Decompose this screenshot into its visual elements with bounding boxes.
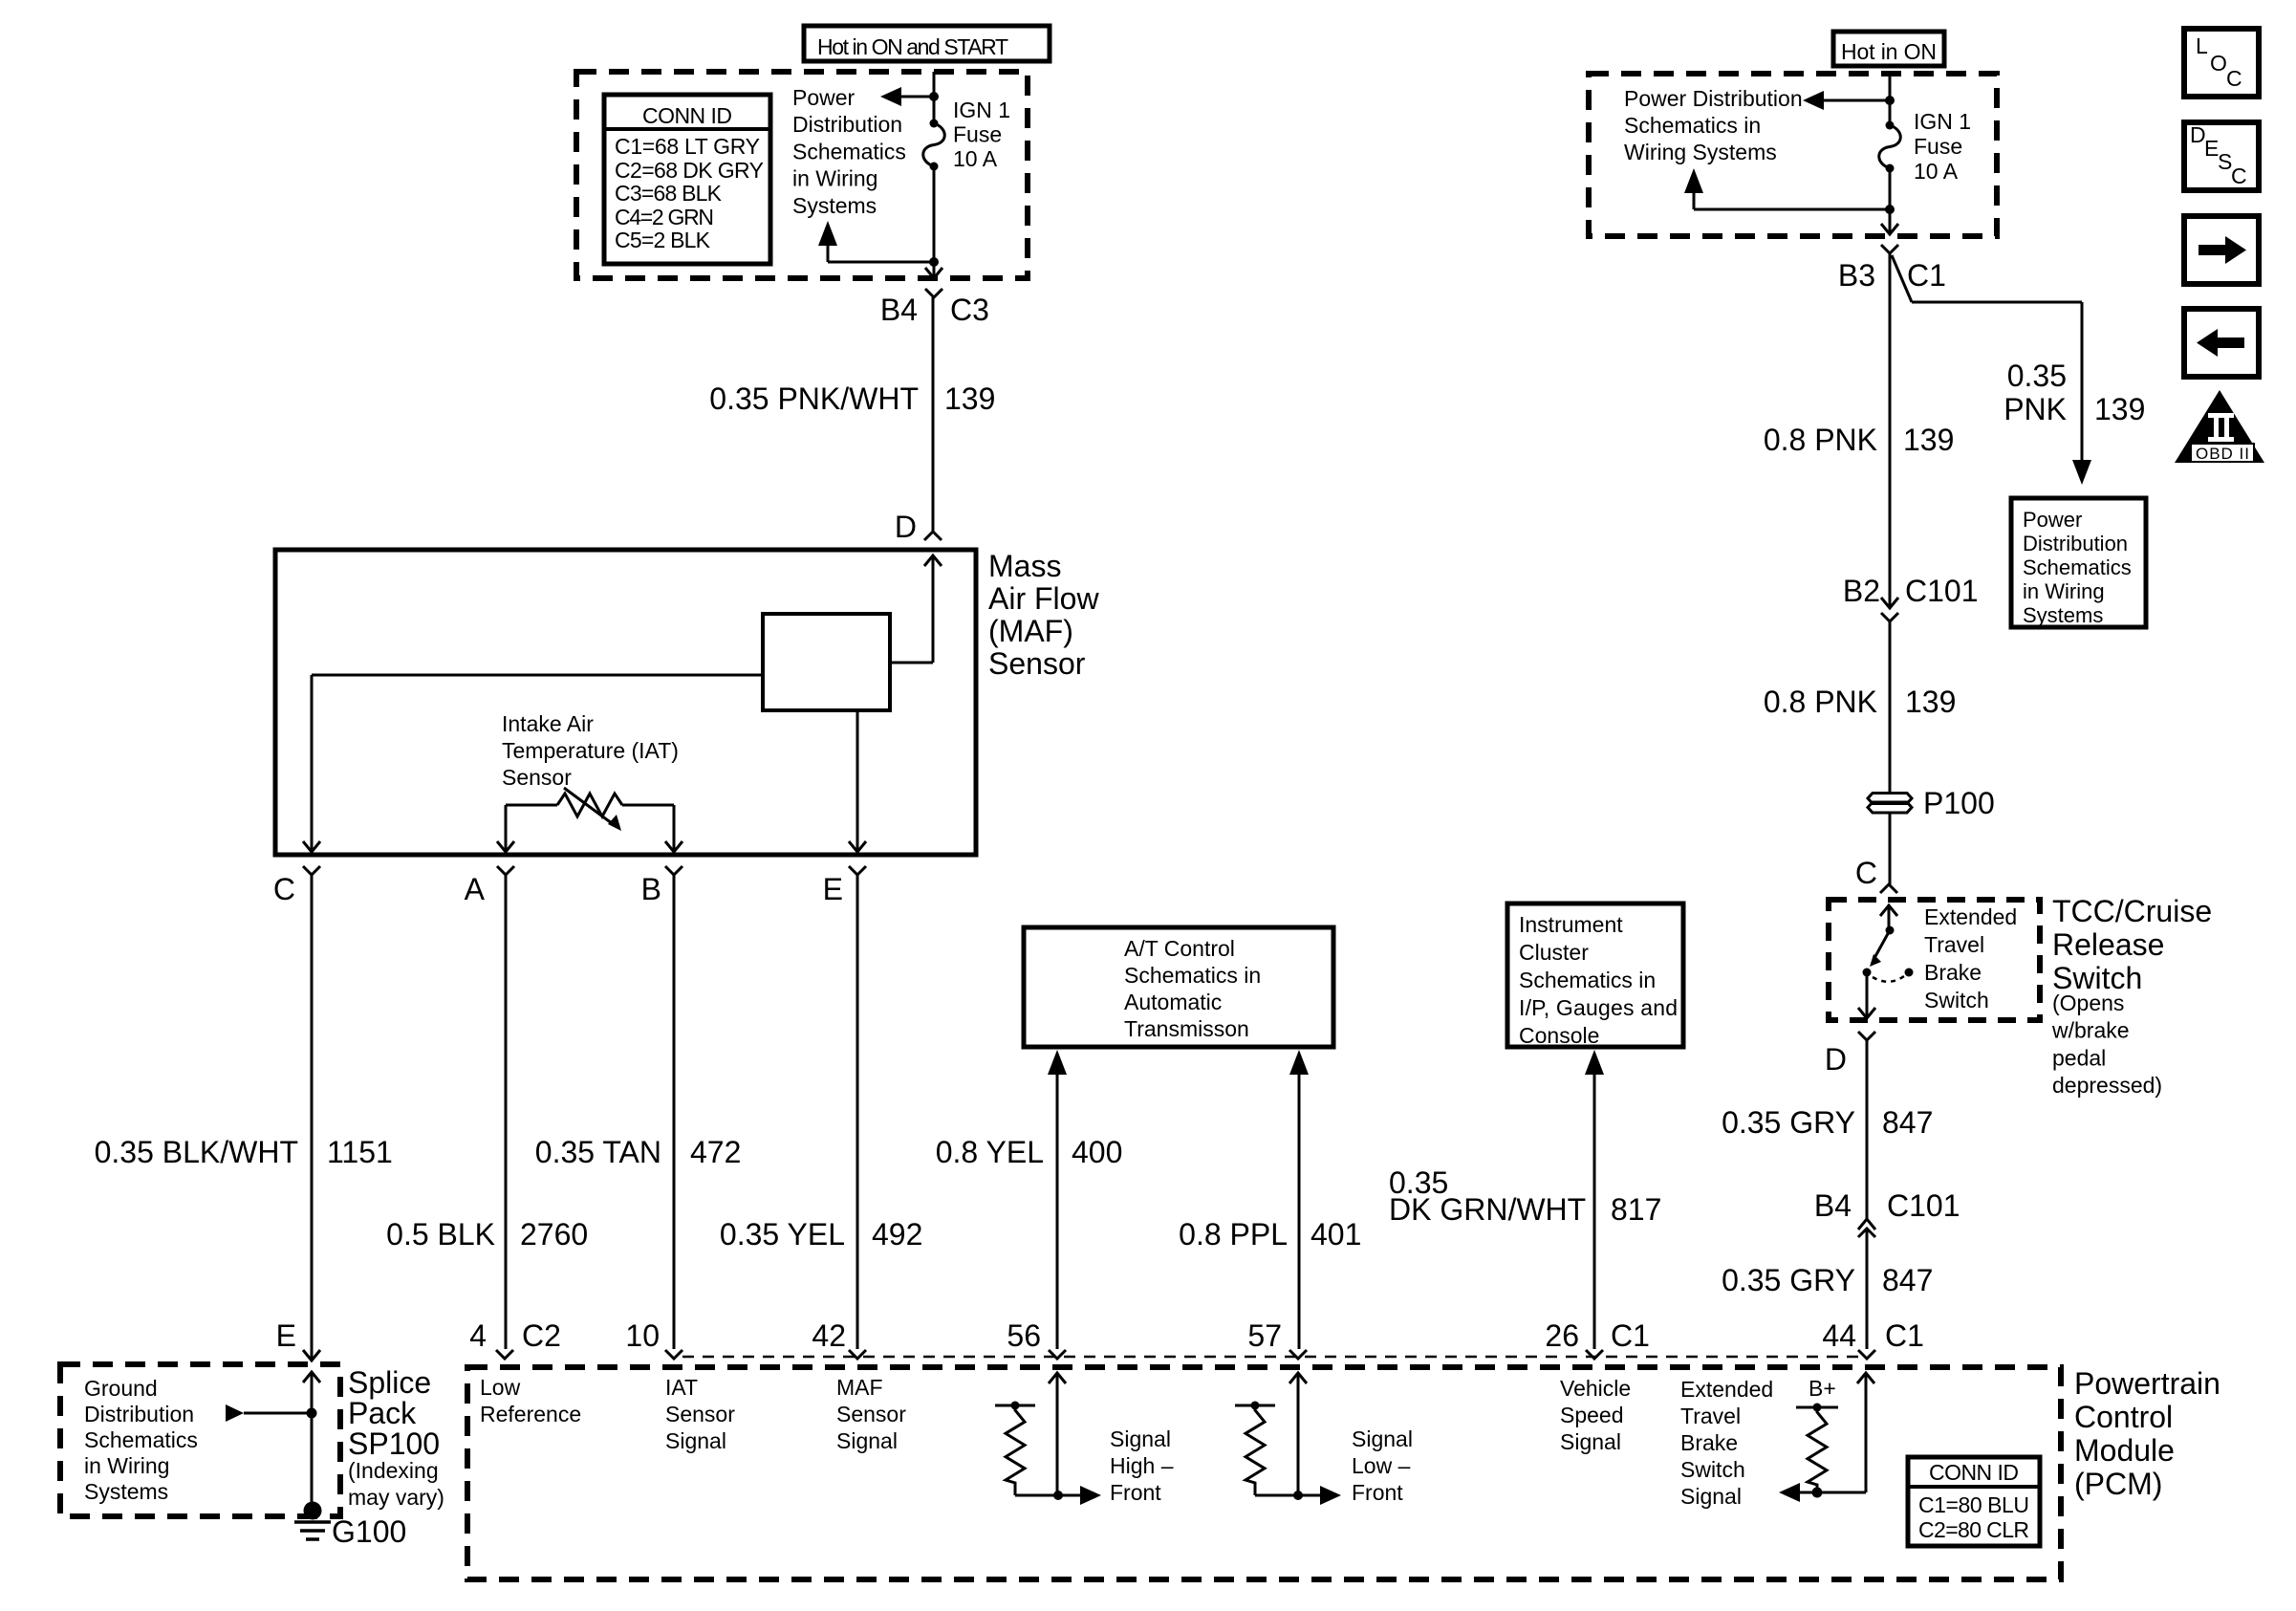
svg-text:10 A: 10 A <box>1914 159 1959 184</box>
connector pin 10 of PCM <box>665 1350 682 1359</box>
label extended travel brake switch <box>1924 904 2017 1012</box>
svg-text:Front: Front <box>1110 1480 1161 1505</box>
svg-text:Intake Air: Intake Air <box>502 711 594 736</box>
svg-text:C1=68 LT GRY: C1=68 LT GRY <box>615 134 760 159</box>
svg-text:Signal: Signal <box>1560 1429 1621 1454</box>
wire PNK to TCC switch <box>1889 813 1892 884</box>
svg-text:w/brake: w/brake <box>2051 1018 2130 1043</box>
svg-text:High –: High – <box>1110 1453 1174 1478</box>
connector ID table (underhood) <box>604 95 770 264</box>
svg-text:0.35 BLK/WHT: 0.35 BLK/WHT <box>95 1135 298 1169</box>
svg-text:Release: Release <box>2052 927 2164 962</box>
svg-text:(MAF): (MAF) <box>988 614 1073 648</box>
label signal high - front <box>1110 1426 1174 1505</box>
label MAF sensor signal <box>836 1375 906 1453</box>
svg-text:Powertrain: Powertrain <box>2074 1366 2220 1401</box>
label IGN 1 Fuse 10 A (rear) <box>1914 109 1971 184</box>
wire 400 YEL <box>1056 1075 1059 1349</box>
svg-text:139: 139 <box>2094 392 2145 426</box>
svg-text:C5=2 BLK: C5=2 BLK <box>615 228 711 252</box>
svg-text:in Wiring: in Wiring <box>792 166 877 191</box>
IAT sensor thermistor <box>506 788 674 831</box>
wire 2760 BLK <box>505 875 508 1349</box>
fuse block rear header box (Hot in ON) <box>1833 32 1944 66</box>
svg-text:Splice: Splice <box>348 1365 431 1400</box>
svg-text:472: 472 <box>690 1135 741 1169</box>
svg-text:O: O <box>2210 51 2227 76</box>
svg-text:Distribution: Distribution <box>792 112 902 137</box>
svg-text:Signal: Signal <box>836 1428 898 1453</box>
svg-text:817: 817 <box>1611 1192 1661 1227</box>
svg-text:Ground: Ground <box>84 1376 158 1401</box>
icon arrow right <box>2184 216 2259 284</box>
svg-text:Schematics: Schematics <box>84 1427 198 1452</box>
icon DESC <box>2184 122 2259 190</box>
svg-text:C: C <box>1855 856 1877 890</box>
svg-text:C3: C3 <box>950 293 989 327</box>
svg-text:(Indexing: (Indexing <box>348 1458 439 1483</box>
TCC/cruise release switch dashed box <box>1829 900 2040 1020</box>
svg-text:may vary): may vary) <box>348 1485 444 1510</box>
svg-text:Schematics in: Schematics in <box>1519 968 1656 992</box>
svg-text:in Wiring: in Wiring <box>2023 579 2105 603</box>
svg-text:G100: G100 <box>332 1514 406 1549</box>
wire: pin 44 internal <box>1817 1373 1874 1492</box>
svg-text:Speed: Speed <box>1560 1403 1624 1427</box>
wire: TCC input to switch contact <box>1888 905 1891 930</box>
svg-text:depressed): depressed) <box>2052 1073 2162 1098</box>
svg-text:B4: B4 <box>1814 1188 1852 1223</box>
svg-text:C1: C1 <box>1885 1318 1924 1353</box>
node: ign1 feed junction (rear) <box>1885 96 1895 105</box>
svg-text:Temperature (IAT): Temperature (IAT) <box>502 738 679 763</box>
svg-text:400: 400 <box>1072 1135 1122 1169</box>
svg-text:0.35 TAN: 0.35 TAN <box>535 1135 661 1169</box>
connector rail (thin dashed) <box>682 1356 1858 1359</box>
svg-text:PNK: PNK <box>2004 392 2067 426</box>
svg-text:139: 139 <box>1903 423 1954 457</box>
node: signal high junction <box>1053 1491 1063 1500</box>
arrow into MAF pin D (up chevron) <box>924 555 942 566</box>
svg-text:C1: C1 <box>1907 258 1946 293</box>
svg-text:D: D <box>1825 1042 1847 1077</box>
svg-text:Extended: Extended <box>1680 1377 1773 1402</box>
svg-text:IGN 1: IGN 1 <box>1914 109 1971 134</box>
svg-text:0.8 PPL: 0.8 PPL <box>1179 1217 1288 1252</box>
svg-text:Systems: Systems <box>84 1479 168 1504</box>
svg-text:Schematics in: Schematics in <box>1624 113 1761 138</box>
grommet P100 <box>1868 794 1912 814</box>
connector pin 26 of PCM <box>1586 1350 1603 1359</box>
svg-text:Switch: Switch <box>1680 1457 1745 1482</box>
label Intake Air Temperature (IAT) Sensor <box>502 711 679 790</box>
label opens w/brake pedal depressed <box>2051 991 2162 1098</box>
label low reference <box>480 1375 581 1426</box>
svg-text:Hot in ON: Hot in ON <box>1841 39 1937 64</box>
fuse block rear dashed box <box>1589 74 1997 236</box>
connector pin D of TCC switch <box>1858 1032 1875 1040</box>
label splice pack SP100 <box>348 1365 444 1510</box>
svg-text:10: 10 <box>625 1318 660 1353</box>
switch S1 extended travel brake switch <box>1863 926 1914 982</box>
arrow into splice (up chevron) <box>303 1372 320 1382</box>
svg-text:Sensor: Sensor <box>665 1402 735 1426</box>
svg-text:Power Distribution: Power Distribution <box>1624 86 1803 111</box>
svg-text:44: 44 <box>1822 1318 1856 1353</box>
power distribution schematics box (rear reference) <box>2011 498 2146 627</box>
svg-text:0.35: 0.35 <box>2007 359 2067 393</box>
in-line connector B4 C101 <box>1858 1219 1875 1237</box>
label TCC/Cruise Release Switch <box>2052 894 2212 995</box>
svg-text:Low: Low <box>480 1375 521 1400</box>
wire: pin 56 internal <box>1049 1373 1066 1495</box>
svg-text:Transmisson: Transmisson <box>1124 1016 1249 1041</box>
svg-text:Automatic: Automatic <box>1124 990 1222 1014</box>
label A/T Control Schematics in Automatic Transmisson <box>1124 936 1261 1041</box>
fuse F1 IGN 1 10A (underhood) <box>923 120 945 171</box>
label IAT sensor signal <box>665 1375 735 1453</box>
svg-text:2760: 2760 <box>520 1217 588 1252</box>
svg-text:C2=80 CLR: C2=80 CLR <box>1918 1517 2029 1542</box>
connector pin C of MAF <box>303 866 320 875</box>
svg-text:Systems: Systems <box>2023 603 2103 627</box>
connector pin B of MAF <box>665 866 682 875</box>
svg-text:Air Flow: Air Flow <box>988 581 1099 616</box>
svg-text:Extended: Extended <box>1924 904 2017 929</box>
arrow signal high - front <box>1058 1486 1101 1505</box>
resistor R3 (B+ pull-up) <box>1796 1404 1838 1493</box>
label vehicle speed signal <box>1560 1376 1631 1454</box>
svg-text:A: A <box>465 872 486 906</box>
connector B4 C3 (fuse block underhood) <box>925 289 942 297</box>
svg-text:CONN ID: CONN ID <box>1929 1460 2019 1485</box>
label extended travel brake switch signal <box>1680 1377 1773 1509</box>
node: signal low junction <box>1293 1491 1303 1500</box>
svg-text:Pack: Pack <box>348 1396 417 1430</box>
powertrain control module dashed box <box>467 1367 2061 1579</box>
svg-text:Schematics: Schematics <box>2023 555 2132 579</box>
ground distribution dashed box <box>60 1364 340 1516</box>
wire 847 GRY upper <box>1866 1040 1869 1219</box>
svg-text:Signal: Signal <box>665 1428 726 1453</box>
svg-text:B+: B+ <box>1809 1376 1836 1401</box>
wire: MAF element to pin E <box>849 710 866 852</box>
svg-text:Distribution: Distribution <box>2023 532 2128 555</box>
svg-text:0.8 YEL: 0.8 YEL <box>936 1135 1044 1169</box>
svg-text:Brake: Brake <box>1680 1430 1738 1455</box>
svg-text:4: 4 <box>469 1318 487 1353</box>
svg-text:C: C <box>2226 66 2242 91</box>
connector pin 42 of PCM <box>849 1350 866 1359</box>
svg-text:401: 401 <box>1310 1217 1361 1252</box>
svg-text:0.35 GRY: 0.35 GRY <box>1722 1263 1855 1297</box>
wire 472 TAN <box>673 875 676 1349</box>
svg-text:TCC/Cruise: TCC/Cruise <box>2052 894 2212 928</box>
icon OBD II triangle <box>2175 390 2264 463</box>
node: fuse output junction <box>929 257 939 267</box>
arrow into TCC switch (up chevron) <box>1880 905 1897 916</box>
svg-text:Instrument: Instrument <box>1519 912 1623 937</box>
fuse block underhood dashed box <box>576 72 1028 278</box>
wire 139 PNK upper <box>1889 253 1892 608</box>
svg-text:C2=68 DK GRY: C2=68 DK GRY <box>615 158 764 183</box>
wire 139 PNK/WHT to MAF <box>932 297 935 532</box>
svg-text:139: 139 <box>1905 685 1956 719</box>
wire 1151 BLK/WHT <box>311 875 314 1361</box>
node: fuse output junction (rear) <box>1885 205 1895 214</box>
svg-text:I/P, Gauges and: I/P, Gauges and <box>1519 995 1678 1020</box>
wire: pin 57 internal <box>1289 1373 1307 1495</box>
arrow from ground distribution reference <box>226 1404 312 1422</box>
arrow signal low - front <box>1298 1486 1341 1505</box>
svg-text:C3=68 BLK: C3=68 BLK <box>615 181 723 206</box>
node: ign1 feed junction <box>929 92 939 101</box>
svg-text:0.35 YEL: 0.35 YEL <box>720 1217 845 1252</box>
svg-text:L: L <box>2196 33 2208 58</box>
svg-text:847: 847 <box>1882 1263 1933 1297</box>
connector pin 44 of PCM <box>1858 1350 1875 1359</box>
wire: MAF element to pin C <box>303 675 763 852</box>
svg-text:(Opens: (Opens <box>2052 991 2124 1015</box>
wire: diagonal branch 0.35 PNK <box>1892 255 2091 485</box>
wire 401 PPL <box>1298 1075 1301 1349</box>
wire 492 YEL <box>856 875 859 1349</box>
instrument cluster schematics box <box>1507 903 1683 1047</box>
label IGN 1 Fuse 10 A (underhood) <box>953 98 1010 171</box>
label signal low - front <box>1352 1426 1413 1505</box>
svg-text:Console: Console <box>1519 1023 1599 1048</box>
wire 817 DK GRN/WHT <box>1593 1075 1596 1349</box>
label ground distribution schematics <box>84 1376 198 1504</box>
svg-text:Power: Power <box>2023 508 2082 532</box>
connector ID table (PCM) <box>1908 1457 2040 1546</box>
svg-text:B: B <box>641 872 661 906</box>
svg-text:B4: B4 <box>880 293 918 327</box>
wire: battery feed into fuse (rear) <box>1889 74 1892 125</box>
svg-text:10 A: 10 A <box>953 146 998 171</box>
label powertrain control module (PCM) <box>2074 1366 2220 1501</box>
svg-text:IGN 1: IGN 1 <box>953 98 1010 122</box>
in-line connector B2 C101 <box>1881 598 1898 621</box>
label power distribution schematics (underhood) <box>792 85 906 218</box>
svg-text:1151: 1151 <box>327 1135 393 1169</box>
wire: fuse output down (rear) <box>1889 168 1892 234</box>
svg-text:Sensor: Sensor <box>502 765 572 790</box>
wire: battery feed into fuse <box>933 72 936 123</box>
svg-text:0.35 GRY: 0.35 GRY <box>1722 1105 1855 1140</box>
svg-text:B3: B3 <box>1838 258 1875 293</box>
wire: IAT to pin B <box>665 805 682 852</box>
svg-text:Module: Module <box>2074 1433 2175 1468</box>
arrow up into instrument cluster box (wire 817) <box>1585 1050 1604 1075</box>
wire: MAF element to pin D <box>890 555 933 663</box>
svg-text:56: 56 <box>1007 1318 1041 1353</box>
svg-text:Travel: Travel <box>1924 932 1984 957</box>
arrow up into A/T box (wire 401) <box>1289 1050 1309 1075</box>
svg-text:Power: Power <box>792 85 856 110</box>
svg-text:139: 139 <box>944 381 995 416</box>
arrow up into A/T box (wire 400) <box>1048 1050 1067 1075</box>
arrow at fuse block exit (down chevron) <box>925 268 942 278</box>
wire 847 GRY lower <box>1866 1229 1869 1349</box>
svg-text:57: 57 <box>1247 1318 1282 1353</box>
svg-text:E: E <box>823 872 843 906</box>
svg-text:0.8 PNK: 0.8 PNK <box>1764 685 1877 719</box>
arrow extended travel brake switch signal <box>1779 1483 1817 1502</box>
wire: branch to power distribution (underhood) <box>818 221 934 262</box>
svg-text:C: C <box>2231 163 2247 188</box>
arrow to power distribution schematics <box>880 87 934 106</box>
svg-text:Wiring Systems: Wiring Systems <box>1624 140 1777 164</box>
svg-text:D: D <box>895 510 917 544</box>
arrow at fuse block rear exit (down chevron) <box>1881 224 1898 234</box>
svg-text:Signal: Signal <box>1110 1426 1171 1451</box>
svg-text:Low –: Low – <box>1352 1453 1411 1478</box>
svg-text:Control: Control <box>2074 1400 2173 1434</box>
svg-text:Cluster: Cluster <box>1519 940 1589 965</box>
svg-text:C: C <box>273 872 295 906</box>
connector pin 56 of PCM <box>1049 1350 1066 1359</box>
svg-text:492: 492 <box>872 1217 922 1252</box>
icon arrow left <box>2184 309 2259 377</box>
MAF sensing element box <box>763 614 890 710</box>
svg-text:Sensor: Sensor <box>988 646 1086 681</box>
wire: switch output down <box>1858 972 1875 1018</box>
svg-text:Schematics in: Schematics in <box>1124 963 1261 988</box>
svg-text:42: 42 <box>812 1318 846 1353</box>
wire: splice pack vertical <box>311 1372 314 1413</box>
arrow into splice pack (down chevron) <box>303 1350 320 1361</box>
label power distribution schematics (rear) <box>1624 86 1803 164</box>
svg-text:0.5 BLK: 0.5 BLK <box>386 1217 495 1252</box>
svg-text:Reference: Reference <box>480 1402 581 1426</box>
svg-text:C101: C101 <box>1905 574 1979 608</box>
svg-text:B2: B2 <box>1843 574 1880 608</box>
svg-text:OBD II: OBD II <box>2196 445 2249 463</box>
label power distribution in wiring systems (box) <box>2023 508 2132 627</box>
svg-text:Vehicle: Vehicle <box>1560 1376 1631 1401</box>
connector pin D at MAF sensor <box>924 532 942 540</box>
svg-text:CONN ID: CONN ID <box>642 103 732 128</box>
wire: branch to power distribution (rear) <box>1684 168 1890 209</box>
svg-text:847: 847 <box>1882 1105 1933 1140</box>
connector B3 C1 (fuse block rear) <box>1881 245 1898 253</box>
node: splice SP100 <box>307 1408 317 1419</box>
svg-text:Signal: Signal <box>1680 1484 1742 1509</box>
svg-text:C2: C2 <box>522 1318 561 1353</box>
svg-text:Hot in ON and START: Hot in ON and START <box>817 34 1008 59</box>
label Instrument Cluster Schematics in I/P Gauges and Console <box>1519 912 1678 1048</box>
icon LOC <box>2184 29 2259 97</box>
svg-text:0.8 PNK: 0.8 PNK <box>1764 423 1877 457</box>
svg-text:Sensor: Sensor <box>836 1402 906 1426</box>
svg-text:Mass: Mass <box>988 549 1061 583</box>
svg-text:0.35 PNK/WHT: 0.35 PNK/WHT <box>709 381 919 416</box>
svg-text:Fuse: Fuse <box>1914 134 1962 159</box>
svg-text:Brake: Brake <box>1924 960 1982 985</box>
svg-text:C4=2 GRN: C4=2 GRN <box>615 205 714 229</box>
svg-text:E: E <box>276 1318 296 1353</box>
MAF sensor box <box>275 550 976 855</box>
fuse block underhood header box (Hot in ON and START) <box>804 26 1050 61</box>
ground G100 symbol <box>294 1502 331 1540</box>
svg-text:Schematics: Schematics <box>792 139 906 163</box>
svg-text:Front: Front <box>1352 1480 1403 1505</box>
connector pin C of TCC switch <box>1880 884 1897 893</box>
svg-text:C1: C1 <box>1611 1318 1650 1353</box>
wire: fuse output down <box>933 166 936 278</box>
wire 139 PNK lower <box>1889 621 1892 793</box>
svg-text:pedal: pedal <box>2052 1045 2106 1070</box>
arrow to power distribution schematics (rear) <box>1803 91 1890 110</box>
svg-text:Switch: Switch <box>1924 988 1989 1012</box>
node: B+ junction <box>1812 1488 1823 1498</box>
svg-text:Fuse: Fuse <box>953 122 1002 147</box>
connector pin A of MAF <box>497 866 514 875</box>
svg-text:(PCM): (PCM) <box>2074 1467 2162 1501</box>
label Mass Air Flow (MAF) Sensor <box>988 549 1099 681</box>
A/T control schematics box <box>1024 927 1333 1047</box>
svg-text:in Wiring: in Wiring <box>84 1453 169 1478</box>
svg-text:MAF: MAF <box>836 1375 883 1400</box>
svg-text:P100: P100 <box>1923 786 1995 820</box>
resistor R1 (signal high pull-up) <box>995 1402 1058 1496</box>
svg-text:C1=80 BLU: C1=80 BLU <box>1918 1492 2029 1517</box>
svg-text:SP100: SP100 <box>348 1426 440 1461</box>
connector pin 57 of PCM <box>1289 1350 1307 1359</box>
connector pin E of MAF <box>849 866 866 875</box>
resistor R2 (signal low pull-up) <box>1235 1402 1298 1496</box>
svg-text:C101: C101 <box>1887 1188 1960 1223</box>
svg-text:DK GRN/WHT: DK GRN/WHT <box>1389 1192 1586 1227</box>
fuse F2 IGN 1 10A (rear) <box>1879 121 1901 173</box>
svg-text:IAT: IAT <box>665 1375 698 1400</box>
svg-text:Systems: Systems <box>792 193 877 218</box>
svg-text:A/T Control: A/T Control <box>1124 936 1235 961</box>
svg-text:Travel: Travel <box>1680 1404 1741 1428</box>
svg-text:Signal: Signal <box>1352 1426 1413 1451</box>
svg-text:26: 26 <box>1545 1318 1579 1353</box>
connector pin 4 of PCM <box>496 1350 513 1359</box>
wire: splice to ground <box>311 1413 314 1503</box>
wire: IAT to pin A <box>497 805 514 852</box>
svg-text:Distribution: Distribution <box>84 1402 194 1426</box>
